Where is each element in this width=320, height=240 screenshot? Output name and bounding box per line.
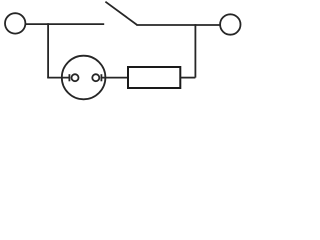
wire: bottom left horizontal into socket: [47, 77, 69, 79]
resistor R (box): [128, 67, 180, 88]
socket X1 (outer circle): [62, 56, 106, 100]
wire: switch pivot to right terminal: [136, 24, 219, 26]
socket left pin tick: [68, 74, 70, 81]
wire: resistor to right corner: [180, 77, 195, 79]
terminal (left binding post): [5, 13, 25, 33]
wire: right vertical rise: [194, 24, 196, 78]
socket right hole: [92, 74, 99, 81]
socket left hole: [72, 74, 79, 81]
terminal (right binding post): [220, 14, 240, 34]
wire: left vertical drop: [47, 23, 49, 77]
socket right pin tick: [100, 74, 102, 81]
switch S (open blade): [105, 2, 137, 25]
wire: left terminal to switch fixed contact: [25, 23, 104, 25]
wire: socket to resistor: [101, 77, 127, 79]
